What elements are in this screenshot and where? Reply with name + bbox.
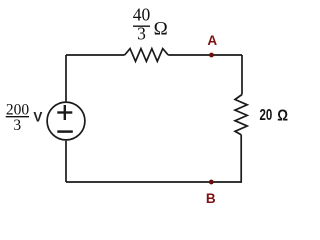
voltage source minus sign: [57, 130, 73, 133]
node A dot: [209, 53, 214, 58]
wire left vertical top: [65, 55, 67, 101]
wire bottom segment: [66, 181, 242, 183]
svg-text:B: B: [206, 191, 216, 206]
wire right vertical top: [241, 55, 243, 95]
resistor R1 40/3 ohm (top zigzag): [125, 49, 169, 62]
svg-text:3: 3: [137, 24, 146, 44]
wire top-left segment: [66, 54, 125, 56]
svg-text:200: 200: [6, 101, 30, 118]
svg-text:40: 40: [133, 4, 151, 24]
node B dot: [209, 180, 214, 185]
svg-text:3: 3: [13, 117, 21, 134]
wire top-right segment: [168, 54, 242, 56]
wire left vertical bottom: [65, 141, 67, 182]
svg-text:20: 20: [260, 107, 273, 124]
svg-text:Ω: Ω: [154, 18, 168, 39]
resistor R2 20 ohm (right zigzag): [235, 95, 247, 135]
voltage source plus sign: [57, 111, 72, 113]
voltage source V1 circle: [47, 102, 85, 140]
svg-text:V: V: [33, 110, 42, 125]
svg-text:A: A: [207, 33, 217, 48]
svg-text:Ω: Ω: [277, 107, 288, 124]
label V1 fraction bar: [6, 116, 29, 118]
wire right vertical bottom: [240, 135, 242, 182]
label R1 fraction bar: [133, 25, 150, 27]
